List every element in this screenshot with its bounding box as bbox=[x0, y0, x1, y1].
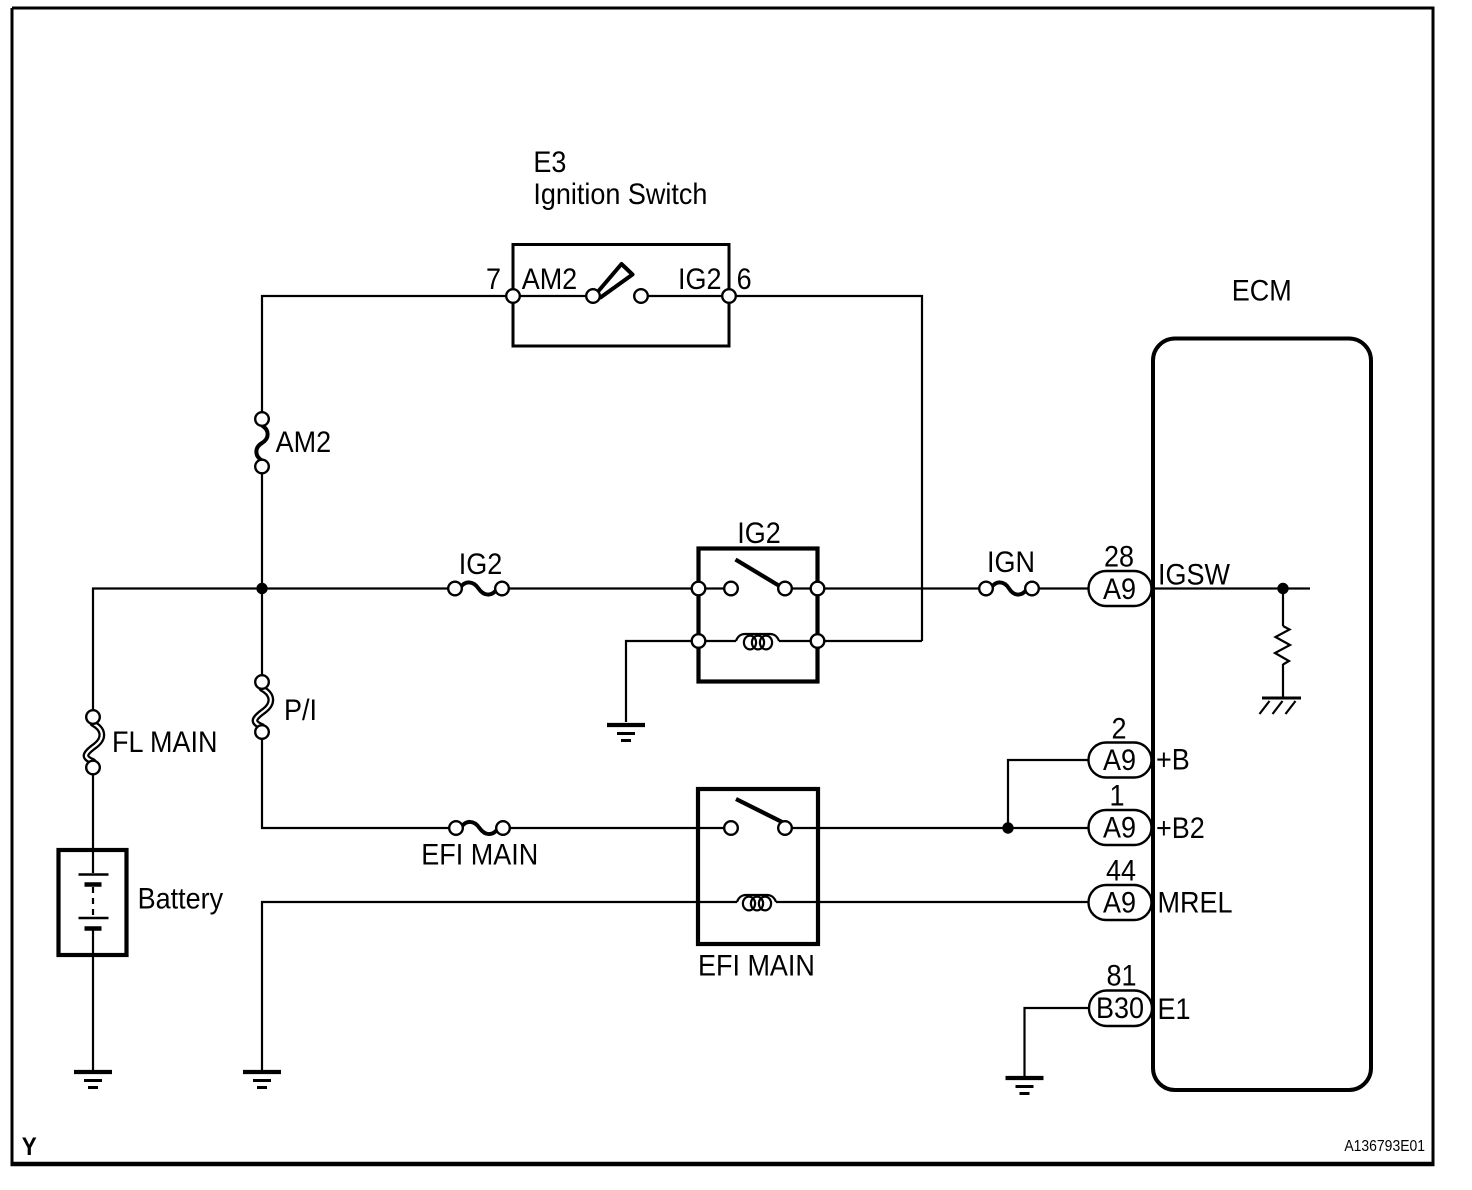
wire IG2 relay contact to IGN fuse bbox=[785, 587, 986, 589]
ground (EFI relay coil / MREL side) bbox=[243, 1072, 281, 1088]
svg-text:MREL: MREL bbox=[1158, 886, 1233, 920]
svg-text:E3: E3 bbox=[533, 146, 566, 180]
svg-text:+B2: +B2 bbox=[1156, 812, 1205, 846]
svg-text:EFI MAIN: EFI MAIN bbox=[421, 838, 538, 872]
svg-text:Battery: Battery bbox=[138, 882, 224, 916]
svg-text:P/I: P/I bbox=[284, 694, 317, 728]
wire battery to ground bbox=[92, 954, 94, 1072]
wire FL MAIN to battery bbox=[92, 768, 94, 852]
wire EFI relay coil to A9-44 MREL bbox=[776, 901, 1089, 903]
fuse EFI MAIN bbox=[421, 821, 538, 872]
relay EFI MAIN terminal circles bbox=[724, 821, 792, 835]
svg-text:7: 7 bbox=[486, 263, 501, 297]
wire EFI relay contact to connector A9-1 (+B2) bbox=[785, 827, 1089, 829]
svg-text:EFI MAIN: EFI MAIN bbox=[698, 949, 815, 983]
svg-text:IG2: IG2 bbox=[737, 517, 780, 551]
fuse AM2 bbox=[255, 412, 331, 473]
relay IG2 contact blade bbox=[736, 560, 780, 587]
svg-text:+B: +B bbox=[1156, 743, 1190, 777]
fuse IG2 bbox=[448, 548, 509, 596]
wire EFI MAIN fuse to EFI relay contact bbox=[503, 827, 731, 829]
chassis ground (IGSW resistor) bbox=[1260, 698, 1302, 714]
connector A9 pin 1 (+B2) bbox=[1089, 779, 1205, 845]
relay IG2 bbox=[692, 517, 825, 682]
wire B30-81 E1 to ground bbox=[1025, 1008, 1090, 1078]
svg-text:44: 44 bbox=[1106, 854, 1136, 888]
junction node (+B / +B2) bbox=[1002, 822, 1013, 833]
relay IG2 coil bbox=[736, 634, 779, 641]
wire P/I fuse to EFI MAIN fuse bbox=[262, 732, 456, 828]
wire AM2 fuse to P/I fuse through junction bbox=[261, 467, 263, 683]
ground (battery) bbox=[74, 1072, 112, 1088]
svg-text:28: 28 bbox=[1104, 540, 1134, 574]
svg-text:IGSW: IGSW bbox=[1158, 558, 1230, 592]
svg-text:Ignition Switch: Ignition Switch bbox=[533, 178, 707, 212]
resistor (IGSW pull-down) bbox=[1275, 626, 1290, 665]
relay EFI MAIN contact blade bbox=[736, 799, 783, 823]
fuse IGN bbox=[979, 546, 1039, 596]
relay EFI MAIN coil bbox=[737, 895, 776, 902]
wire IGSW inside ECM bbox=[1152, 587, 1310, 589]
fusible link FL MAIN bbox=[86, 710, 217, 774]
svg-text:AM2: AM2 bbox=[276, 426, 331, 460]
ignition switch E3 box bbox=[513, 245, 729, 347]
wire ignition switch IG2 side (pin 6) down to IG2 relay coil bbox=[641, 296, 922, 641]
wire IGN fuse to connector A9-28 bbox=[1032, 587, 1089, 589]
junction node (IGSW resistor) bbox=[1277, 583, 1288, 594]
svg-text:1: 1 bbox=[1109, 779, 1124, 813]
ignition switch lever bbox=[596, 264, 633, 298]
svg-text:2: 2 bbox=[1111, 712, 1126, 746]
relay EFI MAIN bbox=[698, 789, 818, 983]
ECM box bbox=[1153, 339, 1371, 1091]
svg-text:81: 81 bbox=[1106, 959, 1136, 993]
svg-text:Y: Y bbox=[22, 1133, 37, 1161]
battery bbox=[59, 850, 224, 955]
svg-text:E1: E1 bbox=[1158, 993, 1191, 1027]
wire IG2 relay coil to ground bbox=[626, 641, 736, 722]
wire IG2 relay coil right side bbox=[779, 640, 922, 642]
svg-text:AM2: AM2 bbox=[522, 263, 577, 297]
wire +B branch from node to A9-2 bbox=[1008, 760, 1089, 828]
wire battery branch to main node bbox=[93, 589, 455, 718]
svg-text:IG2: IG2 bbox=[678, 263, 721, 297]
svg-text:A9: A9 bbox=[1103, 811, 1136, 845]
connector A9 pin 28 (IGSW) bbox=[1089, 540, 1231, 606]
svg-text:FL MAIN: FL MAIN bbox=[112, 726, 217, 760]
connector B30 pin 81 (E1) bbox=[1089, 959, 1191, 1026]
wire IG2 fuse to IG2 relay contact bbox=[502, 587, 731, 589]
wire resistor leads bbox=[1282, 589, 1284, 699]
relay IG2 terminal circles bbox=[692, 582, 825, 648]
ignition switch terminal circles bbox=[506, 289, 736, 303]
svg-text:6: 6 bbox=[737, 263, 752, 297]
fusible link P/I bbox=[255, 675, 317, 739]
svg-text:ECM: ECM bbox=[1232, 274, 1292, 308]
svg-text:A9: A9 bbox=[1103, 573, 1136, 607]
wire MREL ground to EFI relay coil bbox=[262, 902, 737, 1072]
svg-text:B30: B30 bbox=[1096, 992, 1144, 1026]
ground (IG2 relay coil) bbox=[607, 725, 645, 741]
svg-text:A136793E01: A136793E01 bbox=[1344, 1138, 1425, 1155]
wire ignition switch AM2 side (pin 7) bbox=[262, 296, 593, 419]
svg-text:A9: A9 bbox=[1103, 886, 1136, 920]
ground (E1) bbox=[1006, 1078, 1044, 1094]
junction node (main) bbox=[256, 583, 267, 594]
svg-text:IG2: IG2 bbox=[459, 548, 502, 582]
connector A9 pin 44 (MREL) bbox=[1089, 854, 1233, 920]
svg-text:A9: A9 bbox=[1103, 744, 1136, 778]
svg-text:IGN: IGN bbox=[987, 546, 1035, 580]
connector A9 pin 2 (+B) bbox=[1089, 712, 1190, 777]
